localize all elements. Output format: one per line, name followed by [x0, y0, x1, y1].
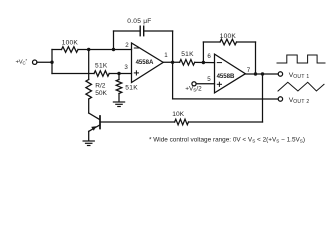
node +VC input terminal [33, 60, 37, 64]
resistor 51K (to pin 3) [94, 71, 109, 77]
svg-text:VOUT 1: VOUT 1 [289, 72, 310, 80]
wire top branch left lead [52, 49, 62, 51]
wire triangle output horizontal [173, 98, 279, 100]
wire left vertical [51, 50, 53, 74]
square wave icon [277, 55, 325, 63]
svg-text:* Wide control voltage range:: * Wide control voltage range: 0V < VS < … [149, 136, 305, 143]
svg-text:5: 5 [207, 76, 211, 83]
capacitor 0.05uF plates [139, 26, 141, 36]
wire capacitor top left lead [114, 30, 140, 32]
node 10K feedback junction [261, 72, 264, 75]
wire top branch right lead to pin 2 [78, 49, 132, 51]
wire capacitor top right lead [144, 30, 173, 32]
wire R/2 bottom lead to collector [88, 99, 90, 113]
wire triangle output vertical [172, 62, 174, 99]
wire 51K-to-ground top lead [118, 74, 120, 80]
wire emitter to ground [88, 131, 90, 140]
op-amp U1 4558A [132, 43, 164, 83]
wire 51K to pin 6 [195, 61, 215, 63]
svg-text:100K: 100K [220, 33, 237, 40]
ground (emitter) [83, 140, 94, 142]
triangle wave icon [278, 82, 324, 91]
svg-text:VOUT 2: VOUT 2 [289, 97, 310, 105]
svg-text:4558B: 4558B [217, 73, 235, 80]
wire 100K feedback top right lead [237, 41, 256, 43]
resistor 51K (pin 3 to ground) [116, 80, 122, 94]
ground (pin 3 divider) [113, 101, 124, 103]
node pin 6 junction [202, 61, 205, 64]
wire A1 output lead [163, 61, 179, 63]
transistor Q1 emitter lead [89, 125, 100, 132]
svg-text:2: 2 [125, 42, 129, 49]
node VOUT2 terminal [278, 97, 282, 101]
wire R/2 vertical top lead [88, 50, 90, 80]
node +VS/2 terminal [192, 82, 196, 86]
svg-text:100K: 100K [62, 40, 79, 47]
op-amp U2 plus sign [217, 83, 221, 85]
wire A2 output [245, 73, 278, 75]
resistor 51K (pin 1 to pin 6) [180, 60, 195, 66]
resistor 100K (input) [62, 47, 79, 53]
wire capacitor left vertical [113, 31, 115, 50]
wire bottom branch right lead to pin 3 [109, 73, 131, 75]
op-amp U1 plus sign [134, 72, 138, 74]
node pin3 junction [117, 72, 120, 75]
svg-text:+VS/2: +VS/2 [185, 86, 202, 93]
wire 100K feedback top left lead [203, 41, 220, 43]
svg-text:0.05 μF: 0.05 μF [127, 18, 151, 25]
node 100K feedback junction [254, 72, 257, 75]
wire input to left junction [37, 61, 52, 63]
svg-text:R/2: R/2 [95, 83, 106, 90]
node capacitor left junction [112, 48, 115, 51]
node VOUT1 terminal [278, 72, 282, 76]
svg-text:51K: 51K [95, 62, 108, 69]
transistor Q1 emitter arrow [91, 126, 96, 131]
wire +VS/2 to pin 5 [196, 83, 214, 85]
svg-text:7: 7 [247, 67, 251, 74]
resistor 10K [175, 119, 189, 125]
wire 100K feedback left vertical [202, 42, 204, 63]
svg-text:6: 6 [207, 53, 211, 60]
transistor Q1 base bar [99, 116, 101, 129]
svg-text:1: 1 [164, 52, 168, 59]
op-amp U1 minus sign [134, 47, 138, 49]
svg-text:3: 3 [124, 64, 128, 71]
wire feedback vertical to square output [262, 74, 264, 122]
wire 51K-to-ground bottom lead [118, 94, 120, 102]
wire 100K feedback right vertical [255, 42, 257, 74]
node pin 1 junction [171, 61, 174, 64]
svg-text:51K: 51K [125, 85, 138, 92]
transistor Q1 collector lead [89, 113, 100, 120]
svg-text:+VC*: +VC* [16, 58, 28, 65]
wire base feedback left segment [100, 121, 175, 123]
node input junction [50, 61, 53, 64]
svg-text:4558A: 4558A [136, 59, 154, 66]
wire base feedback right segment [189, 121, 263, 123]
op-amp U2 4558B [215, 54, 246, 93]
wire bottom branch left lead [52, 73, 94, 75]
resistor 100K (A2 feedback) [220, 39, 237, 45]
op-amp U2 minus sign [217, 62, 221, 64]
svg-text:50K: 50K [95, 90, 107, 97]
svg-text:10K: 10K [172, 111, 184, 118]
node R/2 top junction [87, 48, 90, 51]
wire capacitor right vertical [172, 31, 174, 62]
resistor R/2 50K [86, 80, 92, 100]
svg-text:51K: 51K [181, 51, 194, 58]
